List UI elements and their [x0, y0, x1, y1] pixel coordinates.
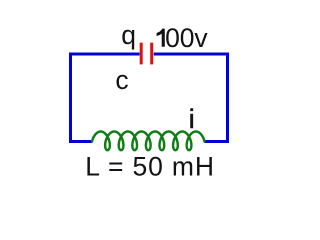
svg-text:L = 50 mH: L = 50 mH	[85, 152, 215, 182]
svg-text:i: i	[189, 104, 195, 134]
svg-text:00v: 00v	[165, 23, 208, 53]
svg-text:q: q	[121, 20, 136, 50]
svg-text:c: c	[115, 65, 128, 95]
